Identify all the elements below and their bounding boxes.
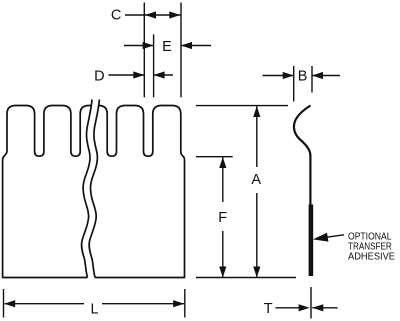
svg-text:D: D (94, 68, 104, 84)
svg-text:A: A (251, 172, 261, 188)
extension line C/E right (x=181) (180, 3, 182, 98)
svg-text:F: F (218, 210, 227, 226)
dimension D (109, 74, 174, 76)
svg-text:ADHESIVE: ADHESIVE (348, 252, 395, 263)
adhesive leader arrow (325, 235, 344, 238)
dimension C (125, 14, 181, 16)
extension line B right (311, 66, 313, 93)
extension line B left (293, 66, 295, 102)
break line left (82, 100, 92, 278)
side view: fin S-curve profile (294, 106, 311, 205)
break line right (89, 100, 99, 278)
extension line T (310, 287, 312, 319)
dimension E (124, 45, 211, 47)
svg-text:B: B (298, 69, 308, 85)
side view: adhesive thick strip (309, 205, 314, 277)
dimension B (263, 75, 341, 77)
svg-text:C: C (111, 7, 121, 23)
dimension F (vertical) (222, 157, 224, 278)
extension line C/D left (x=144.3) (143, 3, 145, 98)
svg-text:L: L (90, 302, 98, 318)
svg-text:E: E (162, 39, 172, 55)
extension line L left (3, 289, 5, 318)
svg-text:T: T (264, 301, 273, 317)
extension line L right (184, 289, 186, 318)
extension line D/E (x=153.6) (153, 34, 155, 97)
extension line top of part for A (196, 105, 288, 107)
dimension T (275, 307, 337, 309)
dimension L (5, 303, 185, 305)
extension lines (4, 3, 313, 319)
extension line slot bottom for F (196, 156, 233, 158)
dimension A (vertical) (256, 106, 258, 278)
fin strip front view outline (3, 106, 185, 278)
break band (white mask between break lines) (82, 100, 100, 280)
extension line bottom of part for A,F (196, 277, 296, 279)
